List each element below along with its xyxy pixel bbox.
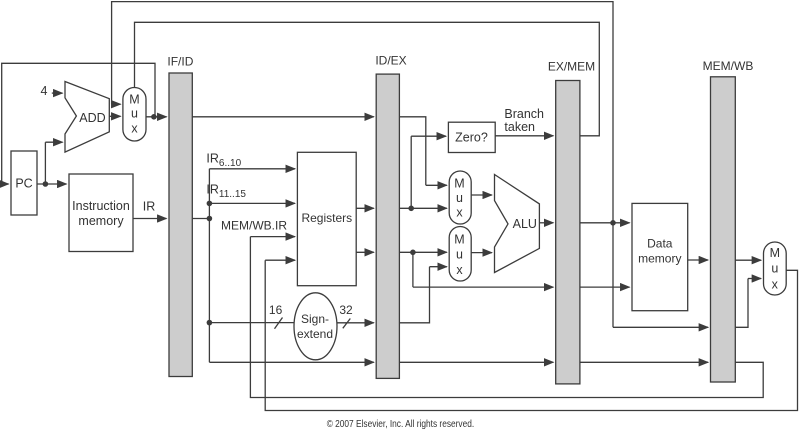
svg-text:EX/MEM: EX/MEM — [548, 60, 595, 74]
svg-text:Branch: Branch — [504, 107, 544, 121]
svg-text:x: x — [456, 263, 463, 277]
wire ALU-result loop: EX/MEM up over top to IF mux input — [112, 2, 613, 223]
junction node A to Zero? — [408, 206, 414, 212]
bus width slash 16 — [275, 318, 283, 329]
wire IR spine vertical — [208, 169, 210, 362]
wire MEM/WB.IR feedback loop to Registers write port — [250, 237, 763, 398]
svg-text:IF/ID: IF/ID — [167, 55, 193, 69]
wire IR11..15 into Registers — [209, 202, 295, 204]
wire Zero? branch taken to EX/MEM — [495, 135, 553, 137]
wire IR6..10 into Registers — [209, 168, 295, 170]
svg-text:4: 4 — [41, 84, 48, 98]
register file Registers — [297, 152, 356, 285]
svg-text:16: 16 — [269, 303, 283, 317]
svg-text:taken: taken — [504, 120, 535, 134]
wire B bypass down to EX/MEM store data — [412, 252, 414, 287]
svg-text:IR11..15: IR11..15 — [206, 183, 246, 201]
svg-text:MEM/WB.IR: MEM/WB.IR — [221, 219, 287, 233]
sign-extend unit — [294, 293, 337, 360]
svg-text:Instruction: Instruction — [72, 199, 130, 213]
junction node IR11..15 tap — [207, 201, 213, 207]
wire register A output to ID/EX — [356, 207, 374, 209]
svg-text:M: M — [454, 233, 464, 247]
wire PC up to ADD input — [44, 142, 46, 184]
svg-text:Registers: Registers — [301, 211, 352, 225]
register PC — [11, 151, 37, 215]
wire ALU value bypass down around data memory to MEM/WB — [612, 223, 614, 327]
wire EX/MEM ALU value to data memory address — [580, 222, 630, 224]
mux IF-stage PC source — [123, 88, 146, 142]
svg-text:Data: Data — [647, 237, 673, 251]
svg-text:u: u — [456, 191, 463, 205]
wire IR pipeline ID/EX-EX/MEM — [399, 361, 553, 363]
svg-text:memory: memory — [638, 252, 681, 266]
wire data memory output to MEM/WB — [688, 259, 708, 261]
wire PC to instruction memory — [37, 183, 67, 185]
wire sign-extend output to ID/EX — [337, 322, 374, 324]
svg-text:u: u — [456, 248, 463, 262]
svg-text:Sign-: Sign- — [301, 312, 329, 326]
wire ADD output to mux — [109, 115, 120, 117]
pipeline register MEM/WB — [711, 77, 736, 382]
svg-text:memory: memory — [78, 214, 124, 228]
svg-text:IR: IR — [143, 200, 156, 214]
svg-text:extend: extend — [297, 327, 333, 341]
wire NPC ID/EX to EX mux top input — [399, 117, 425, 186]
wire branch-taken loop: EX/MEM right side up over top to IF mux select — [135, 22, 600, 136]
pipeline register IF/ID — [169, 73, 192, 377]
wire immediate ID/EX to EX mux lower input — [399, 267, 429, 323]
junction node PC output — [43, 181, 49, 187]
pipeline register ID/EX — [376, 74, 399, 378]
svg-text:ALU: ALU — [513, 217, 537, 231]
svg-text:x: x — [772, 278, 779, 292]
svg-text:MEM/WB: MEM/WB — [703, 59, 754, 73]
svg-text:M: M — [454, 177, 464, 191]
svg-text:ADD: ADD — [79, 111, 105, 125]
wire A from ID/EX to mux1 — [399, 207, 446, 209]
wire MEM/WB ALU value to WB mux lower input — [735, 279, 748, 328]
instruction memory box — [69, 174, 133, 252]
wire PC feedback: mux output left around to PC input — [2, 63, 155, 184]
wire IR pipeline IF/ID-ID/EX — [209, 361, 373, 363]
wire IR instruction memory to IF/ID — [133, 218, 167, 220]
svg-text:IR6..10: IR6..10 — [206, 152, 241, 170]
wire NPC IF/ID to ID/EX — [192, 116, 373, 118]
comparator Zero? — [448, 122, 495, 152]
mux EX-stage ALU input 2 — [449, 227, 471, 282]
svg-text:32: 32 — [339, 303, 353, 317]
svg-text:x: x — [456, 206, 463, 220]
data memory box — [632, 203, 688, 310]
svg-text:© 2007 Elsevier, Inc. All righ: © 2007 Elsevier, Inc. All rights reserve… — [327, 419, 475, 430]
adder ADD — [65, 82, 109, 153]
wire ALU output to EX/MEM — [539, 222, 553, 224]
wire constant 4 into ADD — [52, 92, 63, 94]
wire WB mux output feedback to Registers write data — [265, 260, 797, 410]
svg-text:ID/EX: ID/EX — [375, 54, 406, 68]
svg-text:x: x — [131, 122, 138, 136]
bus width slash 32 — [343, 319, 351, 329]
wire IR pipeline EX/MEM-MEM/WB — [580, 361, 708, 363]
wire immediate tap to sign-extend — [209, 322, 294, 324]
pipeline register EX/MEM — [556, 81, 580, 384]
svg-text:M: M — [129, 93, 139, 107]
wire mux2 output to ALU — [471, 252, 492, 254]
svg-text:u: u — [131, 107, 138, 121]
junction node mux output / PC feedback — [151, 114, 157, 120]
svg-text:u: u — [771, 262, 778, 276]
junction node immediate tap — [207, 320, 213, 326]
mux EX-stage ALU input 1 — [449, 171, 471, 224]
wire mux output to IF/ID — [146, 116, 167, 118]
wire mux1 output to ALU — [471, 194, 492, 196]
junction node B bypass — [410, 250, 416, 256]
wire B from ID/EX to mux2 — [399, 251, 446, 253]
junction node ALU result branch target — [610, 220, 616, 226]
junction node IR spine at IF/ID output — [207, 216, 213, 222]
svg-text:Zero?: Zero? — [455, 131, 488, 145]
wire MEM/WB LMD to WB mux — [735, 259, 761, 261]
svg-text:M: M — [770, 246, 780, 260]
wire EX/MEM store data to data memory — [580, 286, 630, 288]
wire A up to Zero? — [410, 136, 412, 208]
svg-text:PC: PC — [15, 177, 32, 191]
wire IR out of IF/ID to spine — [192, 218, 209, 220]
wire register B output to ID/EX — [356, 251, 374, 253]
ALU — [495, 175, 540, 273]
mux WB-stage write-back — [764, 242, 787, 295]
